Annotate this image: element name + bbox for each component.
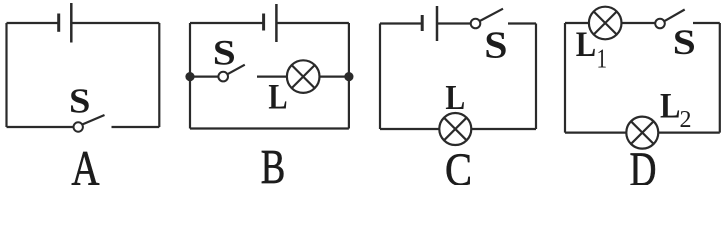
switch S lever C bbox=[480, 9, 503, 21]
wire top-right A bbox=[72, 22, 160, 24]
wire top-mid D bbox=[622, 22, 656, 24]
lamp L1 circle D bbox=[589, 7, 622, 40]
wire bottom-left C bbox=[380, 128, 439, 130]
svg-text:D: D bbox=[630, 143, 657, 185]
wire left side A bbox=[5, 23, 7, 127]
wire top-left B bbox=[190, 22, 263, 24]
svg-text:S: S bbox=[673, 22, 696, 62]
circuit D loop wires bbox=[565, 23, 720, 133]
battery C long plate bbox=[436, 6, 439, 41]
wire bottom-right A bbox=[112, 126, 160, 128]
wire top-left A bbox=[7, 22, 59, 24]
wire right side C bbox=[535, 24, 537, 130]
battery B short plate bbox=[262, 14, 265, 31]
wire top-left D bbox=[565, 22, 589, 24]
svg-text:L: L bbox=[576, 25, 596, 65]
wire right side B bbox=[348, 23, 350, 129]
svg-text:2: 2 bbox=[680, 107, 692, 133]
wire top-right D bbox=[693, 22, 720, 24]
wire top-right B bbox=[277, 22, 349, 24]
svg-text:S: S bbox=[213, 33, 236, 73]
wire bottom-right C bbox=[471, 128, 536, 130]
lamp L2 cross D bbox=[631, 121, 654, 144]
wire bottom-left A bbox=[7, 126, 74, 128]
svg-text:S: S bbox=[69, 81, 90, 120]
wire middle-center B bbox=[257, 75, 287, 77]
wire bottom-left D bbox=[565, 132, 626, 134]
wire bottom B bbox=[190, 127, 349, 129]
lamp L cross C bbox=[444, 118, 467, 141]
lamp L cross B bbox=[292, 65, 315, 88]
svg-text:L: L bbox=[660, 86, 680, 126]
circuit C loop wires bbox=[380, 24, 536, 130]
junction dot right B bbox=[344, 72, 353, 81]
switch S lever A bbox=[83, 115, 105, 124]
wire right side D bbox=[719, 23, 721, 133]
svg-text:A: A bbox=[71, 140, 100, 185]
battery B long plate bbox=[275, 4, 278, 42]
wire bottom-right D bbox=[658, 132, 720, 134]
switch S pivot circle A bbox=[74, 122, 83, 131]
lamp L circle B bbox=[287, 60, 320, 93]
circuit A loop wires bbox=[7, 23, 160, 127]
junction dot left B bbox=[185, 72, 194, 81]
battery A short plate bbox=[57, 14, 60, 32]
lamp L circle C bbox=[439, 113, 471, 145]
wire top-left C bbox=[380, 22, 422, 24]
svg-text:C: C bbox=[445, 144, 472, 185]
wire middle-left B bbox=[190, 75, 218, 77]
wire top-right C bbox=[508, 22, 536, 24]
wire right side A bbox=[158, 23, 160, 127]
svg-text:B: B bbox=[261, 140, 286, 185]
switch S pivot circle D bbox=[655, 19, 665, 29]
lamp L1 cross D bbox=[594, 12, 617, 35]
wire left side C bbox=[379, 24, 381, 130]
battery A long plate bbox=[70, 3, 73, 43]
svg-text:L: L bbox=[268, 78, 287, 118]
lamp L2 circle D bbox=[626, 117, 658, 149]
wire middle-right B bbox=[320, 75, 349, 77]
wire left side B bbox=[189, 23, 191, 129]
switch S pivot circle B bbox=[218, 72, 228, 82]
battery C short plate bbox=[421, 15, 424, 31]
wire left side D bbox=[564, 23, 566, 133]
circuit B loop wires bbox=[190, 23, 349, 129]
switch S pivot circle C bbox=[471, 19, 481, 29]
wire top-mid C bbox=[438, 22, 471, 24]
switch S lever D bbox=[664, 10, 684, 22]
svg-text:S: S bbox=[484, 23, 507, 66]
switch S lever B bbox=[228, 65, 245, 75]
svg-text:L: L bbox=[445, 79, 465, 118]
svg-text:1: 1 bbox=[597, 44, 608, 74]
